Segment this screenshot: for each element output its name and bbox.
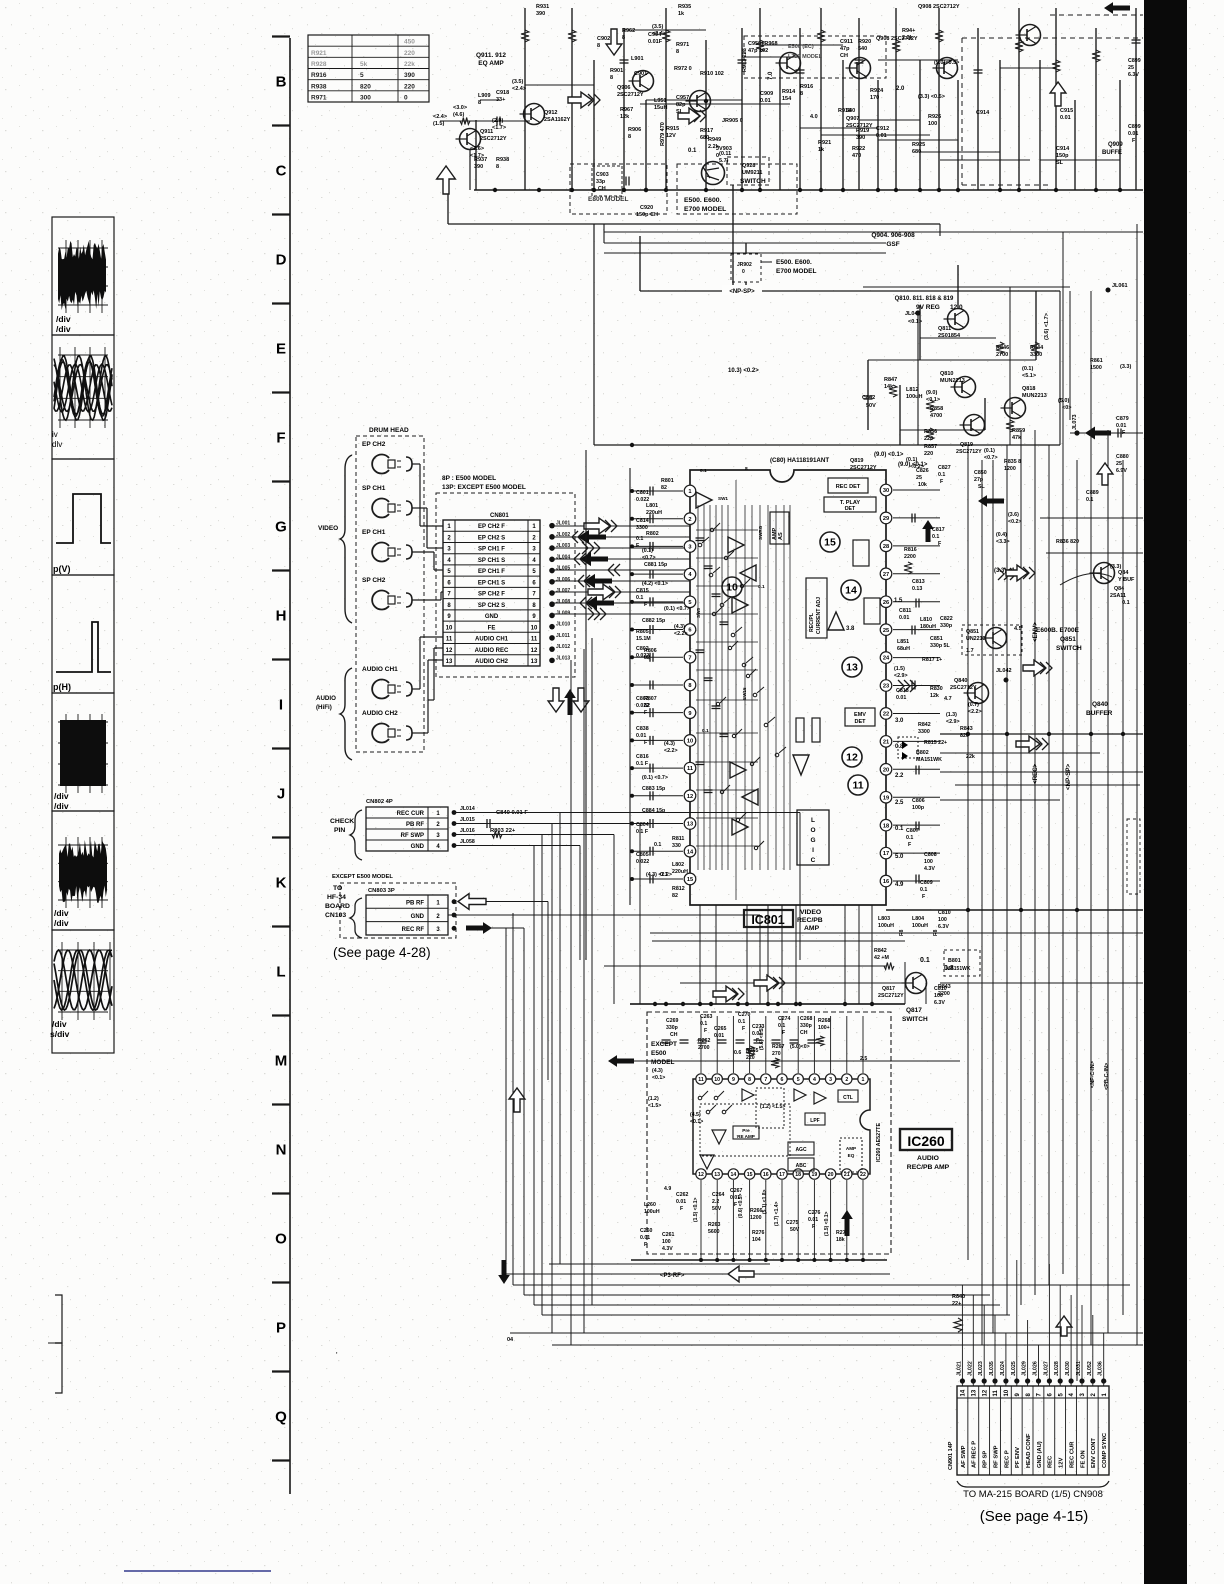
svg-text:R807: R807	[644, 696, 657, 702]
svg-text:100p: 100p	[912, 805, 925, 811]
svg-text:DRUM HEAD: DRUM HEAD	[369, 427, 409, 434]
svg-text:EP CH1 F: EP CH1 F	[478, 569, 505, 575]
svg-text:E800 MODEL: E800 MODEL	[588, 196, 628, 203]
svg-text:820: 820	[360, 83, 371, 90]
svg-text:R919: R919	[856, 128, 869, 134]
svg-text:12V: 12V	[666, 133, 676, 139]
svg-text:H: H	[276, 608, 287, 625]
svg-text:150p CH: 150p CH	[636, 212, 658, 218]
svg-text:B: B	[276, 74, 287, 91]
svg-text:3.8: 3.8	[846, 626, 855, 632]
svg-text:11: 11	[852, 780, 863, 792]
svg-text:C275: C275	[786, 1220, 799, 1226]
svg-text:SW8: SW8	[696, 608, 701, 618]
svg-text:Q: Q	[275, 1409, 287, 1426]
svg-text:0.01: 0.01	[760, 98, 771, 104]
svg-text:L812: L812	[906, 387, 919, 393]
svg-text:C822: C822	[940, 616, 953, 622]
svg-text:R971: R971	[311, 94, 327, 101]
svg-text:(0.1) <0.7>: (0.1) <0.7>	[642, 775, 668, 781]
svg-text:8: 8	[628, 134, 631, 140]
svg-text:0.13: 0.13	[912, 586, 922, 592]
svg-text:100+: 100+	[818, 1025, 830, 1031]
svg-text:(3.5): (3.5)	[652, 24, 663, 30]
svg-text:22+: 22+	[952, 1301, 961, 1307]
svg-text:<5.1>: <5.1>	[1022, 373, 1036, 379]
svg-text:(3.6) <1.7>: (3.6) <1.7>	[1044, 313, 1050, 340]
svg-text:8: 8	[478, 100, 481, 106]
svg-text:C901: C901	[634, 71, 647, 77]
svg-text:JV903: JV903	[716, 146, 732, 152]
svg-text:Q851: Q851	[966, 629, 979, 635]
svg-text:1.5: 1.5	[894, 598, 903, 604]
svg-text:O: O	[275, 1231, 287, 1248]
svg-text:GND (AU): GND (AU)	[1037, 1441, 1043, 1468]
svg-text:L951: L951	[654, 98, 667, 104]
svg-text:BUFFE: BUFFE	[1102, 150, 1122, 156]
svg-text:820: 820	[960, 733, 969, 739]
svg-text:C851: C851	[930, 636, 943, 642]
svg-text:RF SWP: RF SWP	[993, 1445, 999, 1468]
svg-text:F: F	[782, 1030, 785, 1036]
svg-text:2SA11: 2SA11	[1110, 593, 1126, 599]
svg-text:R922: R922	[852, 146, 865, 152]
svg-text:0.1: 0.1	[920, 887, 927, 893]
svg-text:E500. E600.: E500. E600.	[684, 197, 722, 204]
svg-text:ENV CONT: ENV CONT	[1091, 1438, 1097, 1468]
svg-text:13: 13	[846, 662, 858, 674]
svg-text:COMP SYNC: COMP SYNC	[1102, 1432, 1108, 1468]
svg-text:Q906: Q906	[617, 85, 630, 91]
svg-text:16: 16	[763, 1172, 769, 1178]
svg-text:12: 12	[846, 752, 858, 764]
svg-text:L260: L260	[644, 1202, 656, 1208]
svg-text:540: 540	[846, 108, 855, 114]
svg-text:R938: R938	[311, 83, 327, 90]
svg-text:JL009: JL009	[556, 610, 570, 616]
svg-text:2.2: 2.2	[712, 1199, 719, 1205]
svg-text:<NF-C-IN>: <NF-C-IN>	[1090, 1061, 1096, 1088]
svg-text:11: 11	[687, 766, 693, 772]
svg-text:8: 8	[622, 35, 625, 41]
svg-text:28: 28	[883, 544, 889, 550]
svg-text:JL010: JL010	[556, 622, 570, 628]
svg-text:2200: 2200	[904, 554, 916, 560]
svg-text:R916: R916	[311, 72, 327, 79]
svg-text:L803: L803	[878, 916, 890, 922]
svg-text:47p: 47p	[840, 46, 850, 52]
svg-text:JL024: JL024	[1000, 1361, 1006, 1376]
svg-text:<1.5>: <1.5>	[648, 1103, 661, 1109]
svg-text:0.1: 0.1	[700, 1021, 707, 1027]
svg-text:10: 10	[531, 625, 538, 631]
svg-text:GND: GND	[485, 614, 499, 620]
svg-text:REC RF: REC RF	[402, 927, 425, 933]
svg-text:(HiFi): (HiFi)	[316, 704, 332, 711]
svg-text:0.1: 0.1	[1122, 600, 1130, 606]
svg-text:R801: R801	[661, 478, 674, 484]
svg-text:C914: C914	[1056, 146, 1070, 152]
svg-text:C814: C814	[636, 518, 649, 524]
svg-text:C267: C267	[730, 1188, 743, 1194]
svg-text:P: P	[276, 1320, 286, 1337]
svg-text:2SC2712Y: 2SC2712Y	[878, 993, 904, 999]
svg-text:Q904. 906-908: Q904. 906-908	[871, 232, 915, 239]
svg-text:19: 19	[812, 1172, 818, 1178]
svg-text:9: 9	[688, 711, 691, 717]
svg-text:PB RF: PB RF	[406, 822, 424, 828]
svg-text:R266: R266	[750, 1208, 763, 1214]
svg-text:SP CH1 F: SP CH1 F	[478, 547, 505, 553]
svg-text:(1.5): (1.5)	[433, 121, 444, 127]
svg-text:F: F	[812, 1224, 815, 1230]
svg-text:RE AMP: RE AMP	[737, 1134, 755, 1139]
svg-text:0.01: 0.01	[1128, 131, 1138, 137]
svg-text:CN802 4P: CN802 4P	[366, 799, 393, 805]
svg-text:<REC>: <REC>	[1032, 763, 1039, 784]
svg-text:EQ: EQ	[848, 1153, 855, 1158]
svg-text:Q840: Q840	[1092, 701, 1108, 708]
svg-text:0.01: 0.01	[899, 615, 909, 621]
svg-text:25: 25	[916, 475, 922, 481]
svg-text:GND: GND	[411, 844, 425, 850]
svg-text:R836 820: R836 820	[1056, 539, 1079, 545]
svg-text:1200: 1200	[750, 1215, 762, 1221]
svg-text:10: 10	[446, 625, 453, 631]
svg-text:(9.0) <0.1>: (9.0) <0.1>	[874, 452, 904, 458]
svg-text:(5.1) <1.8>: (5.1) <1.8>	[762, 1189, 768, 1214]
svg-text:12V: 12V	[1059, 1458, 1065, 1468]
svg-text:0: 0	[742, 269, 745, 275]
svg-text:50V: 50V	[790, 1227, 800, 1233]
svg-text:0.1: 0.1	[932, 534, 939, 540]
svg-text:21: 21	[844, 1172, 850, 1178]
svg-text:100: 100	[928, 121, 937, 127]
svg-text:F: F	[680, 1206, 683, 1212]
svg-text:330: 330	[672, 843, 681, 849]
svg-text:RP SP: RP SP	[983, 1451, 989, 1468]
svg-text:C: C	[276, 163, 287, 180]
svg-text:10: 10	[1004, 1389, 1010, 1396]
svg-text:11: 11	[531, 637, 538, 643]
svg-text:0.1: 0.1	[654, 842, 661, 848]
svg-text:0.1: 0.1	[700, 468, 707, 474]
svg-text:REC CUR: REC CUR	[397, 811, 425, 817]
svg-text:Q810: Q810	[940, 371, 953, 377]
svg-text:R842: R842	[918, 722, 931, 728]
svg-text:100uH: 100uH	[878, 923, 894, 929]
svg-text:8: 8	[745, 466, 748, 472]
svg-text:0.1: 0.1	[895, 826, 904, 832]
svg-text:REC/PL: REC/PL	[809, 612, 815, 632]
svg-text:4.0: 4.0	[810, 114, 818, 120]
svg-text:JL011: JL011	[556, 633, 570, 639]
svg-text:/div: /div	[56, 314, 71, 324]
svg-text:VIDEO: VIDEO	[318, 525, 338, 532]
svg-text:21: 21	[883, 739, 889, 745]
svg-text:JR902: JR902	[737, 262, 752, 268]
svg-text:330p: 330p	[666, 1025, 678, 1031]
svg-text:REC: REC	[1048, 1455, 1054, 1468]
svg-text:150p: 150p	[1056, 153, 1069, 159]
svg-text:E500. E600.: E500. E600.	[776, 259, 812, 266]
svg-text:4.5: 4.5	[1014, 626, 1022, 632]
svg-text:6: 6	[781, 1077, 784, 1083]
svg-text:17: 17	[883, 851, 889, 857]
svg-text:33+: 33+	[496, 97, 505, 103]
svg-text:RF SWP: RF SWP	[401, 833, 424, 839]
svg-text:14: 14	[845, 585, 857, 597]
svg-text:<P3-RF>: <P3-RF>	[660, 1273, 685, 1279]
svg-text:F: F	[644, 1242, 647, 1248]
svg-text:Q817: Q817	[906, 1007, 922, 1014]
svg-text:0.01: 0.01	[640, 1235, 650, 1241]
svg-text:(1.5): (1.5)	[894, 666, 905, 672]
svg-text:15: 15	[687, 877, 693, 883]
svg-text:JL029: JL029	[1022, 1361, 1028, 1376]
svg-text:/div: /div	[56, 324, 71, 334]
svg-text:R972 0: R972 0	[674, 66, 692, 72]
svg-text:4.7: 4.7	[944, 696, 952, 702]
svg-text:p(H): p(H)	[53, 682, 71, 692]
svg-text:R931: R931	[536, 4, 549, 10]
svg-text:12: 12	[698, 1172, 704, 1178]
svg-text:DET: DET	[845, 506, 856, 512]
svg-text:3: 3	[688, 545, 691, 551]
svg-text:2SC2712Y: 2SC2712Y	[480, 136, 507, 142]
svg-text:E: E	[276, 341, 286, 358]
svg-text:12: 12	[982, 1389, 988, 1396]
svg-text:2.0: 2.0	[896, 86, 905, 92]
svg-text:C915: C915	[1060, 108, 1073, 114]
svg-text:13: 13	[971, 1389, 977, 1396]
svg-text:AMP: AMP	[772, 527, 778, 540]
svg-text:22k: 22k	[404, 61, 415, 68]
svg-text:SL: SL	[978, 484, 986, 490]
svg-text:C880: C880	[1116, 454, 1129, 460]
svg-text:11: 11	[446, 637, 453, 643]
svg-text:C274: C274	[778, 1016, 791, 1022]
svg-text:FE: FE	[488, 625, 496, 631]
svg-text:C911: C911	[840, 39, 853, 45]
svg-text:C883 15p: C883 15p	[642, 786, 666, 792]
svg-text:220: 220	[404, 83, 415, 90]
svg-text:BUFFER: BUFFER	[1086, 710, 1113, 717]
svg-text:CN801: CN801	[490, 513, 509, 519]
svg-text:2SC2712Y: 2SC2712Y	[956, 449, 982, 455]
svg-text:33p: 33p	[596, 179, 606, 185]
svg-text:42 +M: 42 +M	[874, 955, 889, 961]
svg-text:G: G	[275, 519, 287, 536]
svg-text:Q907: Q907	[846, 116, 859, 122]
svg-text:R920: R920	[858, 39, 871, 45]
svg-text:N: N	[276, 1142, 287, 1159]
svg-text:4.9: 4.9	[895, 882, 904, 888]
svg-text:C827: C827	[938, 465, 951, 471]
svg-text:27: 27	[883, 572, 889, 578]
svg-text:(See page 4-15): (See page 4-15)	[980, 1508, 1088, 1525]
svg-text:R938: R938	[496, 157, 509, 163]
svg-text:PIN: PIN	[334, 827, 345, 834]
svg-text:14: 14	[961, 1389, 967, 1396]
svg-text:(1.3): (1.3)	[946, 712, 957, 718]
svg-text:C811: C811	[899, 608, 911, 614]
svg-text:(4.3): (4.3)	[652, 1068, 663, 1074]
svg-text:0.01: 0.01	[808, 1217, 818, 1223]
svg-text:0.1: 0.1	[758, 584, 765, 590]
svg-text:L851: L851	[897, 639, 909, 645]
svg-text:(4.3) <2.2>: (4.3) <2.2>	[646, 872, 672, 878]
svg-text:VIDEO: VIDEO	[800, 909, 821, 916]
svg-text:12k: 12k	[930, 693, 939, 699]
svg-text:JL025: JL025	[1011, 1361, 1017, 1376]
svg-text:GSF: GSF	[886, 241, 899, 248]
svg-text:R267: R267	[772, 1044, 785, 1050]
svg-text:(0.1) <0.7>: (0.1) <0.7>	[664, 606, 690, 612]
svg-text:0.1 F: 0.1 F	[636, 829, 649, 835]
svg-text:AMP: AMP	[804, 925, 820, 932]
svg-text:C882 15p: C882 15p	[642, 618, 666, 624]
svg-text:<0.1>: <0.1>	[690, 1119, 703, 1125]
svg-text:JL014: JL014	[460, 806, 475, 812]
svg-text:4700: 4700	[930, 413, 942, 419]
svg-text:<2.9>: <2.9>	[946, 719, 960, 725]
svg-text:C838: C838	[636, 726, 649, 732]
svg-text:15: 15	[747, 1172, 753, 1178]
svg-text:IC260 AE527TE: IC260 AE527TE	[876, 1123, 882, 1162]
svg-text:F: F	[734, 1202, 737, 1208]
svg-text:C884 15p: C884 15p	[642, 808, 666, 814]
svg-text:GND: GND	[411, 914, 425, 920]
svg-text:18: 18	[883, 823, 889, 829]
svg-text:6.3V: 6.3V	[934, 1000, 945, 1006]
svg-text:R815 22+: R815 22+	[924, 740, 947, 746]
svg-text:R847: R847	[884, 377, 897, 383]
svg-text:C813: C813	[912, 579, 925, 585]
svg-text:1200: 1200	[1004, 466, 1016, 472]
svg-text:MUN2213: MUN2213	[940, 378, 965, 384]
svg-text:12: 12	[531, 648, 538, 654]
svg-text:I: I	[279, 697, 283, 714]
svg-text:220uH: 220uH	[672, 869, 688, 875]
svg-text:100uH: 100uH	[912, 923, 928, 929]
svg-text:R928: R928	[311, 61, 327, 68]
svg-text:180uH: 180uH	[920, 624, 936, 630]
svg-text:C826: C826	[916, 468, 929, 474]
svg-text:8: 8	[800, 91, 803, 97]
svg-text:UN2213: UN2213	[966, 636, 985, 642]
svg-text:R263: R263	[708, 1222, 721, 1228]
svg-text:26: 26	[883, 600, 889, 606]
svg-text:C268: C268	[800, 1016, 813, 1022]
svg-text:220uH: 220uH	[646, 510, 662, 516]
svg-text:2SC2712Y: 2SC2712Y	[617, 92, 644, 98]
svg-text:(3.6): (3.6)	[1008, 512, 1019, 518]
svg-text:300: 300	[360, 94, 371, 101]
svg-text:5600: 5600	[708, 1229, 720, 1235]
svg-text:R935: R935	[678, 4, 691, 10]
svg-text:0.022: 0.022	[636, 859, 649, 865]
svg-text:JL008: JL008	[556, 599, 570, 605]
svg-text:0.1: 0.1	[920, 957, 930, 964]
svg-text:10k: 10k	[918, 482, 927, 488]
svg-text:0.1 F: 0.1 F	[636, 761, 649, 767]
svg-text:AUDIO: AUDIO	[316, 695, 336, 702]
svg-text:JL042: JL042	[996, 668, 1012, 674]
svg-text:<0.1>: <0.1>	[652, 1075, 665, 1081]
svg-text:JL026: JL026	[1033, 1361, 1039, 1376]
svg-text:C801: C801	[636, 490, 649, 496]
svg-text:(4.2) <0.1>: (4.2) <0.1>	[642, 581, 668, 587]
svg-text:JL052: JL052	[1087, 1361, 1093, 1376]
svg-text:Q819: Q819	[850, 458, 863, 464]
svg-text:C810: C810	[938, 910, 951, 916]
svg-text:0.01: 0.01	[714, 1033, 724, 1039]
svg-text:(0.7): (0.7)	[968, 702, 979, 708]
svg-text:p(V): p(V)	[53, 564, 71, 574]
svg-text:Q909: Q909	[1108, 142, 1123, 148]
svg-text:R967: R967	[620, 107, 633, 113]
svg-text:1k: 1k	[818, 147, 825, 153]
svg-text:(1.2) <1.5>: (1.2) <1.5>	[760, 1104, 785, 1110]
svg-text:R916: R916	[800, 84, 813, 90]
svg-text:Q819: Q819	[960, 442, 973, 448]
svg-text:(1.7) <1.4>: (1.7) <1.4>	[774, 1201, 780, 1226]
svg-text:C270: C270	[738, 1012, 751, 1018]
svg-text:1.7: 1.7	[966, 648, 974, 654]
svg-text:R843: R843	[960, 726, 973, 732]
svg-text:C881 15p: C881 15p	[644, 562, 668, 568]
svg-text:13: 13	[714, 1172, 720, 1178]
svg-text:0.01: 0.01	[1116, 423, 1126, 429]
svg-text:6.3V: 6.3V	[1128, 72, 1139, 78]
svg-text:CH: CH	[670, 1032, 678, 1038]
svg-text:Q810. 811. 818 & 819: Q810. 811. 818 & 819	[895, 296, 954, 302]
svg-text:<ENV>: <ENV>	[1032, 622, 1039, 642]
svg-text:8: 8	[610, 75, 613, 81]
svg-text:JL015: JL015	[460, 817, 475, 823]
svg-text:390: 390	[856, 135, 865, 141]
svg-text:<0.2>: <0.2>	[1008, 519, 1022, 525]
svg-text:3: 3	[829, 1077, 832, 1083]
svg-text:(C80) HA118191ANT: (C80) HA118191ANT	[770, 457, 829, 464]
svg-text:C809: C809	[920, 880, 933, 886]
svg-text:C909: C909	[760, 91, 773, 97]
svg-text:2SA1162Y: 2SA1162Y	[544, 117, 571, 123]
svg-text:2.5: 2.5	[895, 800, 904, 806]
svg-text:15uH: 15uH	[654, 105, 667, 111]
svg-text:JL035: JL035	[989, 1361, 995, 1376]
svg-text:220: 220	[924, 451, 933, 457]
svg-text:(0.6) <0.5>: (0.6) <0.5>	[738, 1193, 744, 1218]
svg-text:CN901 14P: CN901 14P	[948, 1441, 954, 1470]
svg-text:JR905 0: JR905 0	[722, 118, 743, 124]
svg-text:390: 390	[536, 11, 545, 17]
svg-text:SL: SL	[1056, 160, 1064, 166]
svg-text:C804: C804	[636, 822, 649, 828]
svg-text:18: 18	[795, 1172, 801, 1178]
svg-text:<2.9>: <2.9>	[894, 673, 908, 679]
svg-text:REC P: REC P	[1004, 1450, 1010, 1468]
svg-text:82: 82	[661, 485, 667, 491]
svg-text:3300: 3300	[918, 729, 930, 735]
svg-text:68uH: 68uH	[897, 646, 910, 652]
svg-text:AUDIO CH2: AUDIO CH2	[475, 659, 509, 665]
svg-text:12: 12	[687, 794, 693, 800]
svg-text:R812: R812	[672, 886, 685, 892]
svg-text:82p: 82p	[676, 102, 686, 108]
svg-text:<PB-C-IN>: <PB-C-IN>	[1104, 1063, 1110, 1090]
